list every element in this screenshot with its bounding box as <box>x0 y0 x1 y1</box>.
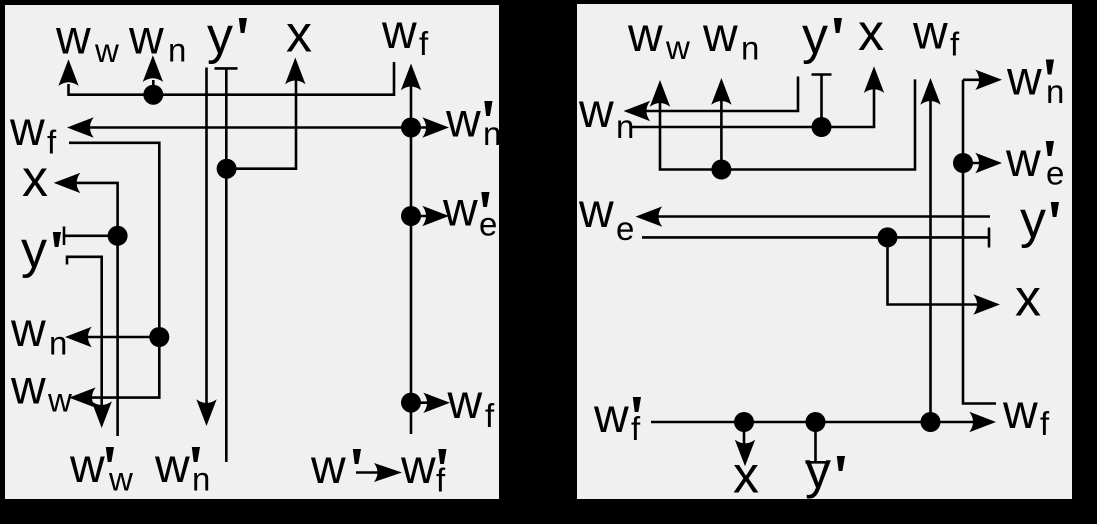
svg-text:n: n <box>168 32 186 69</box>
wire: stub to w'_e <box>963 162 985 165</box>
svg-text:n: n <box>49 325 67 362</box>
wire: branch right and up into x (top) <box>227 73 296 169</box>
right panel background <box>577 4 1072 499</box>
arrowhead up into w_w <box>650 80 670 107</box>
arrowhead up into w_n <box>143 55 163 82</box>
junction dot on wire C <box>149 327 169 347</box>
junction dot branch x <box>734 412 754 432</box>
svg-text:w: w <box>381 6 417 59</box>
wire: stub to w'_n <box>963 79 985 82</box>
junction dot on wire A <box>143 85 163 105</box>
svg-text:f: f <box>485 397 495 434</box>
svg-text:y: y <box>805 442 831 500</box>
svg-text:e: e <box>479 205 497 242</box>
label y' (top) <box>207 7 247 65</box>
label w'_e (right output) <box>442 184 497 243</box>
label x (top) <box>858 4 884 62</box>
arrowhead right into w_f output <box>969 412 996 432</box>
arrowhead right into x output <box>973 294 1000 314</box>
svg-text:f: f <box>631 410 641 447</box>
arrowhead right into w_f output <box>423 393 450 413</box>
label y' (right, w_e row) <box>1020 191 1059 249</box>
label w'_e (right) <box>1005 134 1064 192</box>
label w'_n (bottom) <box>154 440 210 498</box>
svg-text:w: w <box>593 390 629 443</box>
svg-text:w: w <box>9 103 45 156</box>
svg-text:w: w <box>400 441 436 494</box>
arrowhead left into w_f <box>67 117 94 137</box>
label w'_n (right top) <box>1006 53 1064 111</box>
label w'_n (right mid output) <box>445 95 501 153</box>
label w_w (left) <box>10 362 72 419</box>
terminal bar of y' (top) <box>812 73 832 76</box>
arrowhead up into w_f (top) <box>920 78 940 105</box>
junction dot y' <box>812 117 832 137</box>
label w_f (left) <box>9 103 57 161</box>
svg-text:e: e <box>1046 155 1064 192</box>
arrowhead up into x (top) <box>285 58 305 85</box>
arrowhead left into w_w <box>69 387 96 407</box>
svg-text:w: w <box>47 382 72 419</box>
svg-text:w: w <box>94 32 119 69</box>
arrowhead up into w_f (top) <box>401 64 421 91</box>
wire: stem up to w_n <box>720 93 723 170</box>
svg-text:f: f <box>1040 405 1050 442</box>
wire: w_e output row <box>652 215 990 218</box>
label x (bottom) <box>733 447 759 505</box>
terminal bar of y' (top) <box>215 67 238 70</box>
label w_n (top) <box>702 9 759 67</box>
svg-text:f: f <box>950 26 960 63</box>
svg-text:w: w <box>128 12 164 65</box>
svg-text:w: w <box>578 85 614 138</box>
wire: main w_f column <box>410 79 413 434</box>
terminal bar of y' (east) <box>988 228 991 248</box>
wire: junction down stub <box>116 236 119 436</box>
arrowhead down into w'_w <box>92 401 112 428</box>
label w_n (left) <box>578 85 634 145</box>
arrowhead right into w'_e <box>975 153 1002 173</box>
junction dot w'_e <box>953 153 973 173</box>
wire A: horizontal bus to w_w / w_n / w_f elbows <box>69 62 395 95</box>
junction dot on y' row <box>878 227 898 247</box>
arrowhead left into w_n <box>65 327 92 347</box>
wire: w_f input column <box>929 93 932 422</box>
svg-text:w: w <box>912 7 948 60</box>
label y' (top) <box>802 7 842 65</box>
arrowhead left into w_e <box>636 206 663 226</box>
label x (left) <box>22 150 48 208</box>
svg-text:f: f <box>47 124 57 161</box>
junction dot branch y' <box>806 412 826 432</box>
label w_f (top) <box>381 6 429 62</box>
label y' (bottom) <box>805 442 845 500</box>
wire B: w_f output row to left <box>86 126 411 129</box>
svg-text:n: n <box>192 461 210 498</box>
wire: y' column 2 (T terminal) <box>225 68 228 462</box>
wire: up and left to x output <box>71 183 118 236</box>
wire: w'_f row <box>651 421 979 424</box>
label w_w (top) <box>55 12 119 70</box>
label w_f (top) <box>912 7 960 63</box>
svg-text:f: f <box>419 25 429 62</box>
label w_n (top) <box>128 12 186 69</box>
terminal bar of y' (left) <box>63 227 66 246</box>
junction dot on w_w bus <box>711 160 731 180</box>
svg-text:w: w <box>55 12 91 65</box>
arrowhead up into w_n <box>711 78 731 105</box>
label w'_f (bottom left) <box>593 390 641 447</box>
arrowhead left into x <box>54 173 81 193</box>
svg-text:w: w <box>1006 53 1042 106</box>
svg-text:w: w <box>627 9 663 62</box>
wire: stub to w_f output <box>411 401 431 404</box>
wire: y' / x row <box>632 82 874 127</box>
svg-text:x: x <box>22 150 48 208</box>
svg-text:f: f <box>436 462 446 499</box>
svg-text:w: w <box>1005 134 1041 187</box>
terminal bar of y' (bottom) <box>806 461 826 464</box>
svg-text:w: w <box>442 184 478 237</box>
wire: branch down and right to x output <box>888 237 984 304</box>
label y' (left) <box>21 221 61 279</box>
arrowhead up into x (top) <box>864 66 884 93</box>
wire: y' column 1 down to w'_n <box>205 68 208 413</box>
svg-text:x: x <box>1015 270 1041 328</box>
svg-text:w: w <box>10 304 46 357</box>
svg-text:w: w <box>310 441 346 494</box>
svg-text:w: w <box>447 376 483 429</box>
wire: y' stem down to junction <box>820 75 823 128</box>
svg-text:w: w <box>154 440 190 493</box>
wire: stub to w'_n <box>411 126 432 129</box>
svg-text:e: e <box>616 210 634 247</box>
svg-text:w: w <box>69 440 105 493</box>
arrowhead right into w'_n <box>422 117 449 137</box>
junction dot w'_n <box>401 118 421 138</box>
svg-text:w: w <box>702 9 738 62</box>
wire: w' distribution column <box>963 80 996 404</box>
label w_e (left) <box>578 185 634 247</box>
wire: w_w bus from w_f column area <box>660 79 915 169</box>
arrowhead down into w'_n <box>196 399 216 426</box>
svg-text:y: y <box>207 7 233 65</box>
label w_f (right, bottom row) <box>1002 386 1050 442</box>
legend w' -> w'_f (bottom right) <box>310 441 447 499</box>
label w_f (right bottom output) <box>447 376 496 434</box>
label w_n (left) <box>10 304 67 362</box>
wire: y' input to junction <box>64 235 118 238</box>
arrowhead up into w_w <box>58 59 78 86</box>
svg-text:w: w <box>1002 386 1038 439</box>
arrowhead right into w'_e <box>422 206 449 226</box>
svg-text:x: x <box>286 6 312 64</box>
wire: second y' line down to w'_w <box>67 257 102 414</box>
svg-text:n: n <box>741 30 759 67</box>
wire: stem down to y' terminal <box>814 422 817 461</box>
wire: w_n elbow output to left <box>640 77 798 112</box>
junction dot on y' column 2 <box>217 159 237 179</box>
wire: stub to w'_e <box>411 215 432 218</box>
label w'_w (bottom) <box>69 440 133 498</box>
svg-text:x: x <box>858 4 884 62</box>
svg-text:n: n <box>1046 73 1064 110</box>
junction dot x/y' <box>108 226 128 246</box>
wire: stem down to x <box>743 422 746 452</box>
svg-text:y: y <box>21 221 47 279</box>
svg-text:w: w <box>445 95 481 148</box>
arrowhead right into w'_n <box>975 70 1002 90</box>
svg-text:w: w <box>578 185 614 238</box>
arrowhead down into x (bottom) <box>735 440 755 467</box>
svg-text:y: y <box>802 7 828 65</box>
wire C: w_f branch down to w_n / w_w <box>69 143 159 398</box>
label x (right) <box>1015 270 1041 328</box>
label x (top) <box>286 6 312 64</box>
wire: branch to w_n <box>84 336 159 339</box>
junction dot w_f (bottom) <box>401 393 421 413</box>
left panel background <box>5 5 499 499</box>
svg-text:w: w <box>10 362 46 415</box>
svg-text:y: y <box>1020 191 1046 249</box>
svg-text:n: n <box>483 115 501 152</box>
label w_w (top) <box>627 9 690 66</box>
arrowhead left into w_n <box>624 101 651 121</box>
junction dot w'_e <box>401 206 421 226</box>
wire: y' input row (from east) <box>642 236 989 239</box>
svg-text:w: w <box>665 29 690 66</box>
svg-text:w: w <box>108 461 133 498</box>
wire: stem from dot up to w_n <box>152 80 155 95</box>
junction dot w_f column <box>921 412 941 432</box>
